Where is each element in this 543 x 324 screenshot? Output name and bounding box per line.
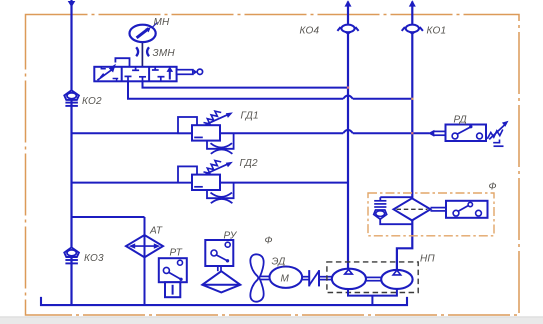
check valve KO2 (64, 90, 102, 107)
wire: left return line (68, 0, 76, 305)
svg-text:НП: НП (420, 254, 435, 265)
wire: AT branch (72, 217, 145, 305)
wire B: valve to riser 2 with hop (128, 81, 413, 100)
svg-text:АТ: АТ (149, 226, 163, 237)
wire: riser to KO1 (pump 2 pressure line) (409, 0, 416, 198)
wire A: valve to riser 1 (143, 81, 350, 88)
pump 2 (381, 270, 412, 289)
svg-text:КО1: КО1 (427, 26, 447, 37)
wire: GD1 branch line with hop (72, 130, 430, 134)
svg-text:ЗМН: ЗМН (153, 48, 176, 59)
level switch RU (202, 231, 240, 293)
svg-text:ЭД: ЭД (272, 257, 286, 268)
heat exchanger AT (126, 226, 163, 258)
fan F (250, 236, 272, 302)
filter assembly frame (368, 182, 497, 236)
pump unit NP dashed box (327, 254, 436, 293)
svg-text:РД: РД (454, 115, 467, 126)
svg-text:РУ: РУ (224, 231, 238, 242)
pressure switch RD (428, 115, 509, 147)
svg-text:ГД1: ГД1 (241, 110, 259, 121)
clog indicator switch (431, 201, 488, 218)
check valve KO1 (402, 25, 447, 37)
svg-text:ГД2: ГД2 (240, 158, 258, 169)
svg-text:МН: МН (154, 17, 171, 28)
svg-text:РТ: РТ (170, 248, 183, 259)
pump 1 (332, 269, 366, 289)
svg-text:Ф: Ф (489, 182, 497, 193)
valve right section internals (152, 66, 173, 81)
svg-text:Ф: Ф (265, 236, 273, 247)
valve centre section internals (125, 67, 147, 82)
pressure gauge MN (130, 17, 171, 67)
svg-text:КО3: КО3 (84, 253, 104, 264)
directional valve pilot loop (115, 58, 129, 67)
check valve KO3 (64, 247, 104, 264)
wire: pump 2 jog to filter riser (397, 220, 412, 270)
flow control valve GD1 (178, 110, 259, 154)
wire: GD2 branch line (72, 182, 349, 184)
directional valve body (94, 67, 176, 82)
electric motor ED (270, 257, 303, 288)
valve actuator plunger (177, 69, 203, 74)
filter bypass branch (374, 197, 413, 224)
wire: pump suction lines (348, 289, 397, 305)
coupling (302, 270, 332, 286)
wire: riser to KO4 (pump 1 pressure line) (345, 0, 352, 269)
svg-text:КО4: КО4 (300, 26, 320, 37)
svg-text:КО2: КО2 (82, 96, 102, 107)
tank (41, 297, 407, 305)
flow control valve GD2 (178, 158, 258, 203)
check valve KO4 (300, 25, 359, 37)
thermal relay RT (159, 248, 187, 298)
filter element (394, 198, 431, 220)
gauge isolator ZMN (136, 47, 175, 59)
valve left section internals (97, 64, 118, 82)
grey strip (0, 316, 543, 324)
svg-text:М: М (281, 274, 290, 285)
pump shaft (366, 277, 381, 280)
